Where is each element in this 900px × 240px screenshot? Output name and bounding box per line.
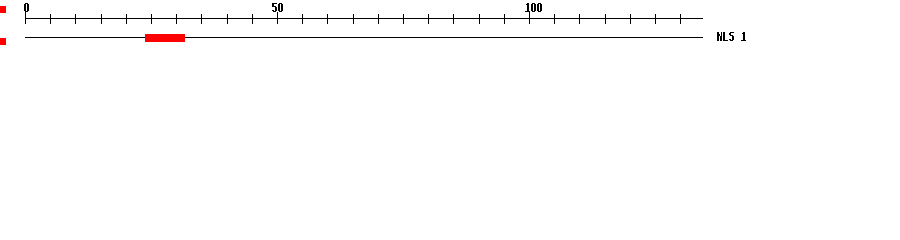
ruler label 0 <box>24 3 29 12</box>
left-edge marker top (red) <box>0 6 6 13</box>
ruler minor tick at 130 <box>680 14 681 24</box>
ruler minor tick at 35 <box>201 14 202 24</box>
ruler minor tick at 90 <box>479 14 480 24</box>
left-edge marker bottom (red) <box>0 38 6 45</box>
background <box>0 0 900 58</box>
ruler minor tick at 40 <box>227 14 228 24</box>
ruler minor tick at 125 <box>655 14 656 24</box>
ruler minor tick at 20 <box>126 14 127 24</box>
feature box NLS 1 (red) <box>145 34 185 42</box>
ruler major tick at 100 <box>529 12 530 24</box>
ruler minor tick at 55 <box>302 14 303 24</box>
ruler major tick at 50 <box>277 12 278 24</box>
ruler major tick at 0 <box>25 12 26 24</box>
ruler minor tick at 110 <box>579 14 580 24</box>
feature label NLS 1 <box>717 32 746 41</box>
ruler minor tick at 45 <box>252 14 253 24</box>
ruler minor tick at 10 <box>75 14 76 24</box>
ruler minor tick at 60 <box>327 14 328 24</box>
ruler minor tick at 80 <box>428 14 429 24</box>
ruler label 50 <box>272 3 283 12</box>
feature track line <box>25 37 703 38</box>
ruler minor tick at 15 <box>101 14 102 24</box>
ruler minor tick at 30 <box>176 14 177 24</box>
ruler label 100 <box>525 3 542 12</box>
ruler minor tick at 65 <box>353 14 354 24</box>
ruler minor tick at 85 <box>453 14 454 24</box>
ruler minor tick at 105 <box>554 14 555 24</box>
ruler minor tick at 25 <box>151 14 152 24</box>
ruler minor tick at 5 <box>50 14 51 24</box>
ruler baseline <box>25 18 703 19</box>
ruler minor tick at 75 <box>403 14 404 24</box>
ruler minor tick at 120 <box>630 14 631 24</box>
ruler minor tick at 95 <box>504 14 505 24</box>
ruler minor tick at 70 <box>378 14 379 24</box>
ruler minor tick at 115 <box>605 14 606 24</box>
